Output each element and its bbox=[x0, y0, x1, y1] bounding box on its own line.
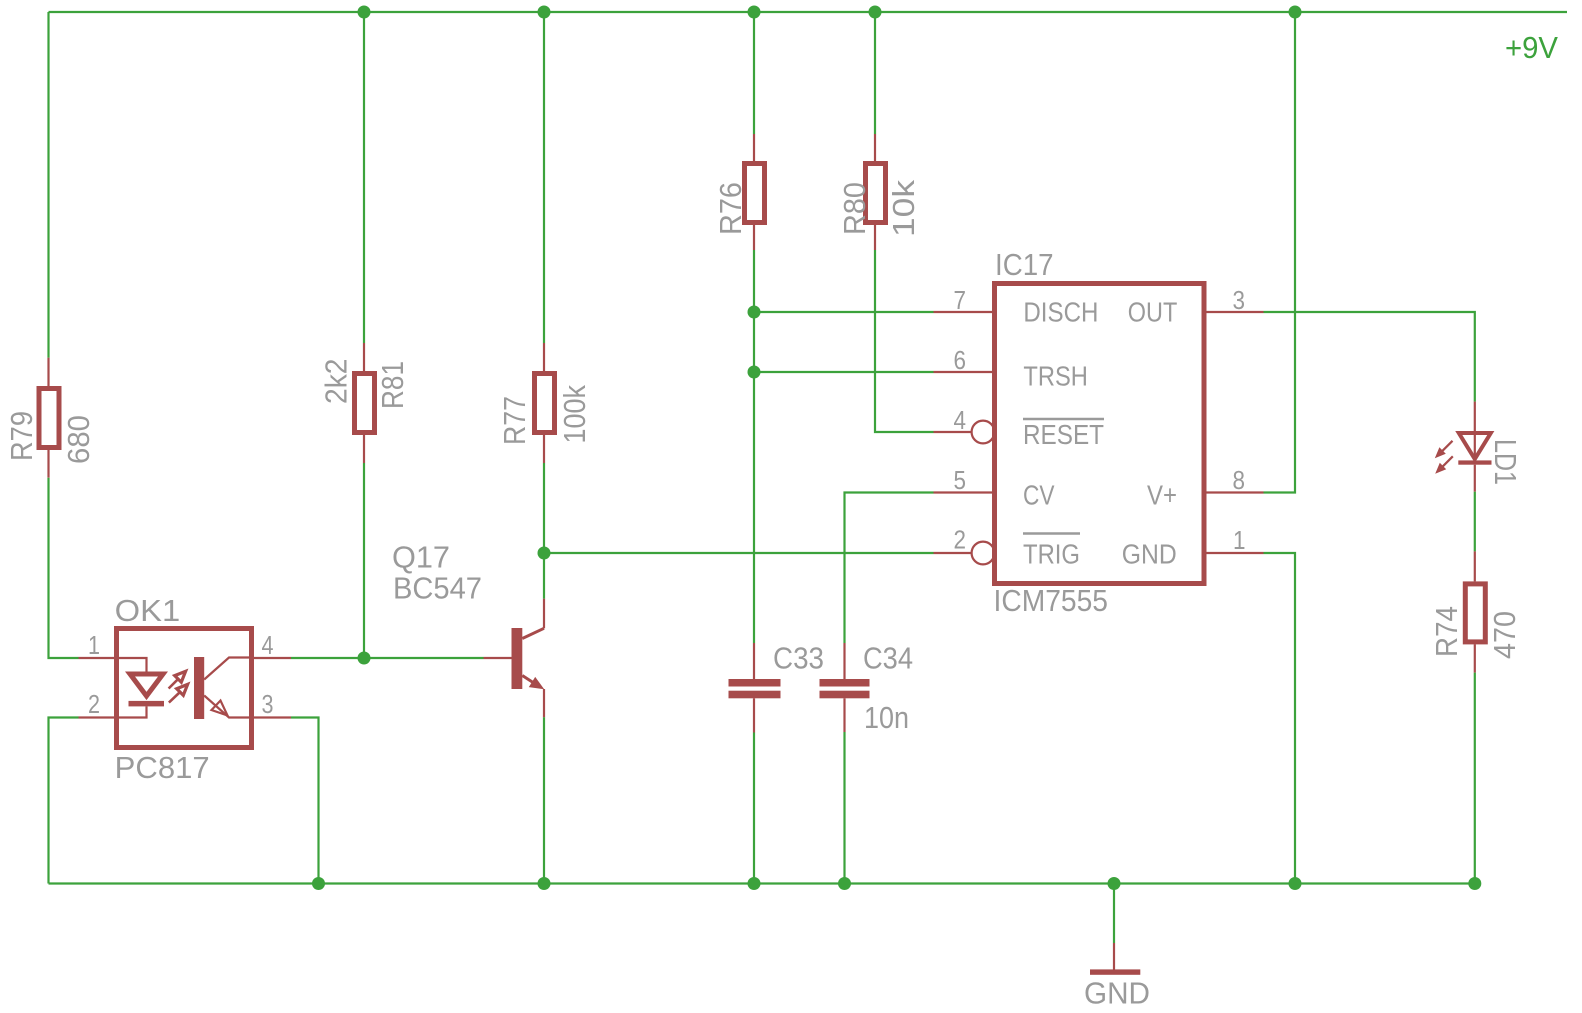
svg-text:2: 2 bbox=[954, 525, 967, 555]
junction +9V / R76 column bbox=[748, 6, 761, 19]
OK1 pin 4 stub bbox=[254, 657, 291, 659]
wire TRSH to IC17 pin 6 bbox=[754, 371, 934, 373]
junction R81 / base wire bbox=[358, 652, 371, 665]
wire R80 to IC17 pin 4 RESET bbox=[875, 250, 934, 432]
transistor Q17 collector stub bbox=[543, 599, 545, 629]
wire +9V to R81 bbox=[363, 12, 365, 343]
junction OK1 pin3 / rail bbox=[312, 877, 325, 890]
wire OUT to LED column bbox=[1264, 312, 1475, 402]
transistor Q17 collector diagonal bbox=[522, 628, 544, 638]
junction TRIG wire / collector column bbox=[538, 547, 551, 560]
resistor R76 body bbox=[745, 164, 765, 223]
wire R77 to Q17 collector bbox=[543, 463, 545, 599]
resistor R76 top pin stub bbox=[753, 134, 755, 161]
IC17 pin 3 stub bbox=[1207, 311, 1264, 313]
wire +9V to R76 bbox=[753, 12, 755, 134]
junction C33 / rail bbox=[748, 877, 761, 890]
wire OK1 pin 2 to bottom rail bbox=[49, 718, 79, 884]
svg-text:C34: C34 bbox=[863, 641, 913, 676]
OK1 internal LED cathode lead bbox=[114, 706, 147, 717]
svg-text:8: 8 bbox=[1233, 465, 1246, 495]
svg-text:ICM7555: ICM7555 bbox=[994, 583, 1109, 618]
wire left column upper (node +9V to R79) bbox=[47, 12, 49, 358]
wire +9V to R77 bbox=[543, 12, 545, 343]
transistor Q17 emitter arrow bbox=[529, 677, 544, 689]
capacitor C34 top plate bbox=[820, 679, 870, 687]
svg-text:6: 6 bbox=[954, 345, 967, 375]
resistor R79 body bbox=[39, 389, 59, 448]
transistor Q17 emitter diagonal bbox=[522, 676, 540, 688]
wire DISCH to IC17 pin 7 bbox=[754, 311, 934, 313]
capacitor C33 bottom plate bbox=[729, 691, 781, 699]
IC17 pin 4 stub bbox=[934, 431, 972, 433]
capacitor C33 top stub bbox=[753, 643, 755, 679]
svg-text:LD1: LD1 bbox=[1488, 439, 1523, 485]
svg-text:DISCH: DISCH bbox=[1023, 297, 1098, 328]
wire OK1 pin 3 to bottom rail bbox=[291, 718, 319, 884]
resistor R81 body bbox=[355, 374, 375, 433]
OK1 phototransistor base bar bbox=[194, 657, 204, 719]
capacitor C33 bottom stub bbox=[753, 698, 755, 732]
wire R76 down to C33 bbox=[753, 250, 755, 643]
svg-text:OUT: OUT bbox=[1128, 297, 1178, 328]
wire R79 to OK1 pin 1 bbox=[49, 478, 79, 658]
svg-text:R80: R80 bbox=[837, 182, 872, 235]
OK1 light arrow 1 shaft bbox=[169, 679, 179, 689]
wire +9V to R80 bbox=[874, 12, 876, 134]
resistor R80 top pin stub bbox=[874, 134, 876, 161]
resistor R74 body bbox=[1465, 584, 1485, 642]
wire rail to GND symbol bbox=[1113, 884, 1115, 944]
ground symbol bar bbox=[1090, 969, 1140, 974]
LED LD1 light arrow 1 shaft bbox=[1441, 441, 1453, 453]
wire +9V top rail bbox=[49, 11, 1568, 13]
ground symbol lead bbox=[1113, 943, 1115, 970]
capacitor C33 top plate bbox=[729, 679, 781, 687]
svg-text:R79: R79 bbox=[4, 411, 39, 461]
svg-text:R74: R74 bbox=[1429, 606, 1464, 657]
optocoupler OK1 pin 1 stub bbox=[79, 657, 115, 659]
svg-text:1: 1 bbox=[1233, 525, 1246, 555]
svg-text:680: 680 bbox=[61, 415, 96, 464]
wire Q17 emitter to bottom rail bbox=[543, 717, 545, 883]
svg-text:100k: 100k bbox=[557, 385, 592, 444]
wire C34 to bottom rail bbox=[843, 732, 845, 884]
wire base node to Q17 bbox=[364, 657, 484, 659]
resistor R81 top pin stub bbox=[363, 343, 365, 372]
resistor R77 top pin stub bbox=[543, 343, 545, 372]
svg-text:TRIG: TRIG bbox=[1023, 539, 1080, 570]
junction C34 / rail bbox=[838, 877, 851, 890]
resistor R77 bottom pin stub bbox=[543, 435, 545, 463]
capacitor C34 bottom plate bbox=[820, 691, 870, 699]
junction Q17 emitter / rail bbox=[538, 877, 551, 890]
resistor R81 bottom pin stub bbox=[363, 435, 365, 463]
OK1 light arrow 1 head bbox=[175, 671, 186, 682]
resistor R76 bottom pin stub bbox=[753, 225, 755, 250]
resistor R74 bottom pin stub bbox=[1474, 644, 1476, 672]
svg-text:+9V: +9V bbox=[1505, 30, 1558, 65]
IC17 pin 2 stub bbox=[934, 552, 972, 554]
IC17 pin 1 stub bbox=[1207, 552, 1264, 554]
junction +9V / R80 column bbox=[869, 6, 882, 19]
IC17 pin 4 inversion circle bbox=[972, 421, 995, 444]
svg-text:R76: R76 bbox=[713, 182, 748, 235]
optocoupler OK1 pin 2 stub bbox=[79, 716, 115, 718]
OK1 phototransistor emitter lead bbox=[204, 696, 254, 718]
svg-text:4: 4 bbox=[262, 630, 274, 660]
transistor Q17 base stub bbox=[484, 657, 512, 659]
svg-text:IC17: IC17 bbox=[995, 247, 1054, 282]
LED LD1 light arrow 2 head bbox=[1435, 463, 1446, 474]
IC17 pin 7 stub bbox=[934, 311, 993, 313]
junction DISCH wire bbox=[748, 306, 761, 319]
svg-text:3: 3 bbox=[262, 689, 274, 719]
svg-text:TRSH: TRSH bbox=[1023, 361, 1088, 392]
svg-text:PC817: PC817 bbox=[115, 750, 210, 785]
svg-text:5: 5 bbox=[954, 465, 967, 495]
OK1 pin 3 stub bbox=[254, 716, 291, 718]
IC17 pin 6 stub bbox=[934, 371, 993, 373]
svg-text:3: 3 bbox=[1233, 285, 1246, 315]
wire IC17 pin 1 GND to bottom rail bbox=[1264, 553, 1296, 884]
capacitor C34 bottom stub bbox=[843, 698, 845, 732]
OK1 phototransistor collector lead bbox=[204, 658, 254, 680]
junction +9V / V+ column bbox=[1289, 6, 1302, 19]
transistor Q17 emitter stub bbox=[543, 689, 545, 717]
optocoupler OK1 box bbox=[117, 629, 252, 748]
svg-text:10n: 10n bbox=[864, 700, 909, 735]
capacitor C34 top stub bbox=[843, 643, 845, 679]
wire OK1 pin 4 to Q17 base node bbox=[291, 657, 364, 659]
transistor Q17 base bar bbox=[512, 628, 523, 689]
svg-text:2k2: 2k2 bbox=[319, 359, 354, 405]
LED LD1 anode lead bbox=[1474, 402, 1476, 459]
OK1 internal LED triangle bbox=[130, 674, 163, 696]
wire TRIG net to IC17 pin 2 bbox=[544, 552, 934, 554]
resistor R79 top pin stub bbox=[47, 358, 49, 387]
LED LD1 light arrow 1 head bbox=[1435, 447, 1446, 458]
svg-text:R81: R81 bbox=[375, 361, 410, 409]
svg-text:R77: R77 bbox=[497, 396, 532, 445]
OK1 light arrow 2 head bbox=[177, 684, 188, 695]
OK1 internal LED anode lead bbox=[114, 658, 147, 672]
IC17 pin 5 stub bbox=[934, 491, 993, 493]
wire GND bottom rail bbox=[49, 882, 1475, 884]
wire C33 to bottom rail bbox=[753, 733, 755, 884]
IC17 pin 8 stub bbox=[1207, 491, 1264, 493]
svg-text:470: 470 bbox=[1487, 611, 1522, 659]
LED LD1 triangle bbox=[1459, 433, 1491, 459]
IC17 pin name RESET overline bbox=[1023, 418, 1104, 421]
svg-text:2: 2 bbox=[88, 689, 100, 719]
wire V+ column from +9V rail to pin 8 bbox=[1264, 12, 1296, 493]
junction GND symbol / rail bbox=[1108, 877, 1121, 890]
svg-text:GND: GND bbox=[1084, 976, 1150, 1011]
wire LED to R74 bbox=[1474, 492, 1476, 552]
svg-text:OK1: OK1 bbox=[115, 593, 181, 628]
resistor R80 bottom pin stub bbox=[874, 225, 876, 250]
LED LD1 cathode lead bbox=[1474, 465, 1476, 492]
wire R74 to bottom rail bbox=[1474, 673, 1476, 884]
svg-text:Q17: Q17 bbox=[392, 540, 450, 575]
svg-text:10k: 10k bbox=[886, 179, 921, 237]
wire IC17 pin 5 CV to C34 bbox=[845, 493, 934, 644]
IC U-IC17 box bbox=[995, 284, 1205, 584]
junction +9V / R81 column bbox=[358, 6, 371, 19]
svg-text:BC547: BC547 bbox=[393, 571, 482, 606]
OK1 internal LED cathode bar bbox=[129, 701, 165, 707]
svg-text:1: 1 bbox=[88, 630, 100, 660]
svg-text:C33: C33 bbox=[773, 641, 824, 676]
resistor R74 top pin stub bbox=[1474, 551, 1476, 581]
LED LD1 cathode bar bbox=[1458, 460, 1491, 464]
OK1 light arrow 2 shaft bbox=[169, 693, 180, 703]
junction TRSH wire bbox=[748, 366, 761, 379]
svg-text:4: 4 bbox=[954, 405, 967, 435]
svg-text:GND: GND bbox=[1122, 539, 1177, 570]
IC17 pin 2 inversion circle bbox=[972, 542, 995, 565]
svg-text:V+: V+ bbox=[1147, 480, 1177, 511]
IC17 pin name TRIG overline bbox=[1023, 532, 1080, 535]
svg-text:CV: CV bbox=[1023, 480, 1055, 511]
LED LD1 light arrow 2 shaft bbox=[1441, 456, 1452, 468]
junction R74 / rail bbox=[1468, 877, 1481, 890]
resistor R77 body bbox=[535, 374, 555, 433]
resistor R80 body bbox=[866, 164, 886, 223]
junction GND column / rail bbox=[1289, 877, 1302, 890]
resistor R79 bottom pin stub bbox=[47, 450, 49, 478]
svg-text:7: 7 bbox=[954, 285, 967, 315]
wire R81 to Q17 base line bbox=[363, 463, 365, 658]
svg-text:RESET: RESET bbox=[1023, 419, 1104, 450]
junction +9V / R77 column bbox=[538, 6, 551, 19]
OK1 phototransistor emitter arrow head bbox=[212, 701, 228, 716]
